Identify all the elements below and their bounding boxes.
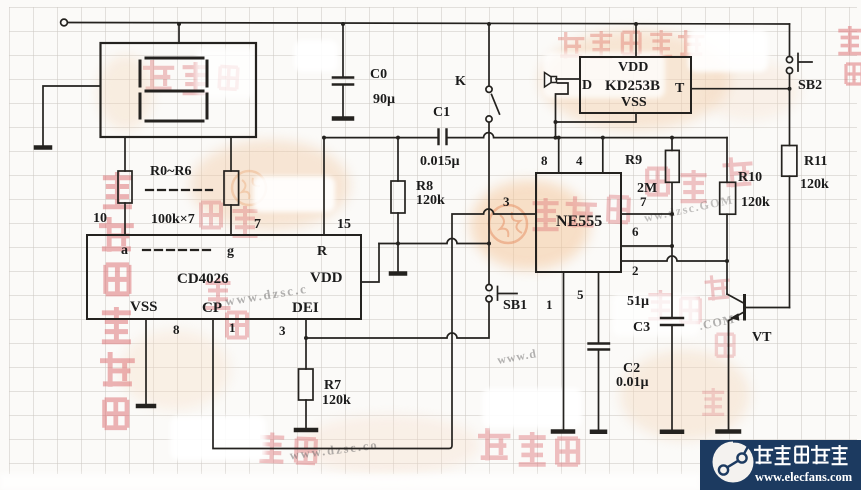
pin CP CD4026 [202,300,222,316]
CD4026 a-g dashes [143,249,212,251]
IC U4 KD253B box [580,57,691,113]
ground VT [718,429,740,434]
label R10 value [741,195,770,210]
capacitor C3 [661,318,683,325]
pin VDD CD4026 [310,270,343,286]
resistor R0 [118,171,132,203]
label KD253B [605,78,660,94]
wire R6 to CD4026 [230,205,232,235]
red watermark centre flower + chars [489,205,527,243]
resistor R6 [224,171,239,205]
capacitor C1 [439,130,447,145]
wire NE555 pin6 [621,245,672,247]
red chars right side (market) [647,156,754,201]
wire pin15 drop to CD4026 [323,138,325,235]
pin a CD4026 [121,243,128,258]
label R7 [324,378,341,393]
pin 3 CD4026 [279,323,286,338]
capacitor C0 [333,78,353,85]
wire R11 to VT base [789,176,791,307]
ground left [36,145,50,150]
wire C0 to ground [342,85,344,116]
label switch SB2 [798,78,822,93]
label R9 value [637,181,657,196]
resistor R7 [299,369,314,400]
wire DEI pin3 drop [305,319,307,369]
pin 8 NE555 [541,153,548,168]
pin 8 CD4026 [173,322,180,337]
ground C0 [334,116,352,121]
wire NE555 pin4 [602,138,604,173]
display segment bottom [146,120,203,123]
red watermark column left [99,172,135,428]
ground R8 [391,271,405,276]
display U2 box [101,43,257,137]
gray dzsc url watermarks [224,192,736,462]
pin 3 NE555 [503,194,510,209]
label C1 [433,105,450,120]
wire K down to SB1 [488,122,490,284]
pin 4 NE555 [576,153,583,168]
wire NE555 pin7 [621,213,672,215]
wire C2 to ground [598,350,600,430]
IC U3 CD4026 box [87,235,361,319]
label R8 value [416,193,445,208]
wire display to R0 [124,137,126,171]
wire speaker to D pin [556,78,580,80]
ground R7 [296,428,316,433]
white-out patches [253,176,335,212]
pin VDD KD253B [618,60,648,75]
wire SB2 node down to R11 [789,89,791,146]
faint orange chars over KD area [558,30,704,58]
transistor VT [727,294,743,303]
switch K [486,86,492,92]
wire R7 to ground [305,400,307,428]
pin 7 NE555 [640,194,647,209]
wire NE555 pin8 [558,138,560,173]
label C3 [633,320,650,335]
wire C1 right with hop over K line [447,133,728,138]
wire R0 to CD4026 [124,203,126,235]
pin D KD253B [582,78,592,93]
label transistor VT [752,330,772,345]
pin 1 CD4026 [229,320,236,335]
svg-text:www.elecfans.com: www.elecfans.com [755,470,853,484]
wire R8 top [397,138,399,181]
label R11 value [800,177,829,192]
pin DEI CD4026 [292,300,319,316]
label C3 value [627,294,649,309]
orange flower top-left [232,171,266,205]
wire DEI node to SB1 with hop [306,302,489,338]
display segment upper-right [206,61,209,86]
display segment lower-left [139,94,142,118]
label R10 [738,170,762,185]
resistor R11 [782,146,797,177]
wire R8 bottom to ground [397,213,399,272]
R0-R6 dashes [146,189,212,191]
label CD4026 [177,271,229,287]
capacitor C2 [589,344,610,350]
red chars right mid [648,274,734,415]
label R0-R6 value [151,212,195,227]
label R9 [625,153,642,168]
wire R10 to VT collector [726,214,728,294]
pin 10 CD4026 [93,211,107,226]
power terminal [61,19,68,26]
label C2 [623,361,640,376]
wire NE555 pin1 to ground [563,272,565,430]
warm watermark tint blobs [190,140,350,230]
wire speaker return [556,83,569,138]
wire VDD stub of CD4026 [361,244,379,283]
wire C0 drop [342,24,344,77]
wire display to R6 [230,137,232,171]
display segment upper-left [139,61,142,86]
ground C2 [592,430,605,435]
display segment lower-right [206,94,209,118]
IC U1 NE555 box [536,173,621,272]
wire R9 bottom to C3 [671,182,673,317]
label R0-R6 [150,164,192,179]
red watermark chars in display area [143,60,238,93]
wire top supply rail [68,23,790,25]
speaker BL [551,77,557,83]
wire NE555 pin5 to C2 [598,272,600,343]
resistor R8 [391,181,405,213]
label C1 value [420,154,460,169]
label switch K [455,74,466,89]
label switch SB1 [503,298,527,313]
wire C3 to ground [671,326,673,431]
wire KD253B VDD drop [635,24,637,57]
wire CP pin1 to NE555 pin3 (clock line) [213,209,536,449]
ground C3 [662,430,682,435]
wire VSS pin8 to ground [145,319,147,404]
label C2 value [616,375,649,390]
pin VSS CD4026 [130,299,158,315]
red char right edge top [838,26,861,84]
wire T line from KD253B [691,88,790,90]
elecfans logo plate [700,440,861,490]
pin 1 NE555 [546,297,553,312]
wire display left to ground [43,86,101,145]
resistor R10 [720,182,736,214]
label NE555 [556,213,602,230]
pin 5 NE555 [577,287,584,302]
pin 7 CD4026 [254,217,261,232]
wire SB2 to T line [789,74,791,89]
wire NE555 pin2 with hop over C3 line [621,256,727,261]
wire main node line from pin15 to C1 [324,137,439,139]
switch SB2 [786,57,792,63]
wire VDD/R8 node to K line with hop [379,239,489,244]
label C0 [370,67,387,82]
wire R10 feed drop [726,138,728,183]
label C0 value [373,92,395,107]
switch SB1 [486,285,492,291]
resistor R9 [666,150,680,182]
display segment top [146,57,203,60]
pin T KD253B [675,81,685,96]
wire R9 top [671,138,673,151]
wire display feed [178,24,180,43]
wire K drop [488,24,490,86]
pin g CD4026 [227,244,234,259]
ground NE555 pin1 [553,429,573,434]
wire VT emitter to ground [728,321,730,431]
label R7 value [322,393,351,408]
red watermark chars near 100k [201,203,258,237]
display segment middle [146,90,203,93]
red watermark chars in CD4026 [206,278,248,338]
wire VSS stub [556,113,637,122]
red chars bottom centre [259,428,578,465]
pin 6 NE555 [632,224,639,239]
pin 15 CD4026 [337,217,351,232]
label R8 [416,179,433,194]
pin 2 NE555 [632,263,639,278]
pin R CD4026 [317,244,328,259]
wire SB2 drop [789,24,791,56]
label R11 [804,154,827,169]
pin VSS KD253B [621,95,647,110]
ground CD4026 pin8 [138,404,154,409]
